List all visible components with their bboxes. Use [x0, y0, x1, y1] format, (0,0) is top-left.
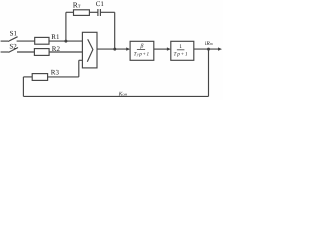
svg-text:C1: C1 [96, 0, 105, 8]
arrowhead output end [218, 47, 222, 50]
svg-text:β: β [139, 43, 143, 50]
wire feedback top left [66, 11, 74, 13]
node B junction dot [113, 48, 116, 51]
wire op-amp output [97, 48, 127, 50]
node C junction dot [207, 48, 210, 51]
wire bottom feedback [23, 95, 208, 97]
wire R3 right [48, 76, 79, 78]
wire S1 left lead [1, 40, 8, 42]
block W2 [171, 41, 194, 60]
svg-text:1: 1 [179, 44, 182, 50]
svg-text:R1: R1 [51, 33, 60, 41]
block W2 fraction [174, 44, 189, 57]
block W1 [130, 41, 154, 60]
svg-text:Rт: Rт [73, 0, 81, 9]
wire bottom up left [22, 77, 24, 97]
resistor R1 [35, 37, 49, 44]
wire R3 up [78, 60, 80, 77]
switch S1 [8, 37, 18, 42]
wire C1 right [100, 11, 114, 13]
capacitor C1 plate right [99, 9, 101, 16]
wire RT to C1 [89, 11, 98, 13]
svg-text:Tуp+1: Tуp+1 [134, 51, 150, 57]
svg-text:R3: R3 [51, 68, 60, 76]
wire feedback down from output [208, 49, 210, 96]
wire S2 left lead [1, 51, 9, 53]
wire S1 to R1 [17, 40, 35, 42]
wire output [194, 48, 219, 50]
node A junction dot [64, 40, 67, 43]
resistor R3 [32, 74, 47, 81]
resistor RT [74, 10, 90, 16]
block W1 fraction [134, 43, 150, 58]
svg-text:S2: S2 [9, 43, 17, 51]
capacitor C1 plate left [97, 9, 99, 16]
wire R3 into op-amp [79, 59, 83, 61]
op-amp U1 chevron [87, 39, 93, 62]
wire feedback down right [114, 12, 116, 49]
wire R1 to op-amp [49, 40, 82, 42]
switch S2 [9, 48, 19, 53]
resistor R2 [34, 49, 49, 56]
wire R2 to op-amp [49, 51, 82, 53]
arrowhead into block W2 [167, 47, 171, 50]
wire to R3 [23, 76, 32, 78]
wire S2 to R2 [17, 51, 34, 53]
svg-text:Tp+1: Tp+1 [174, 52, 189, 58]
arrowhead into block W1 [126, 47, 130, 50]
svg-text:R2: R2 [52, 45, 61, 53]
svg-text:S1: S1 [10, 30, 18, 38]
wire W1 to W2 [154, 48, 168, 50]
op-amp U1 box [82, 32, 97, 68]
svg-text:iRт: iRт [205, 41, 213, 47]
wire feedback tap up [65, 12, 67, 41]
